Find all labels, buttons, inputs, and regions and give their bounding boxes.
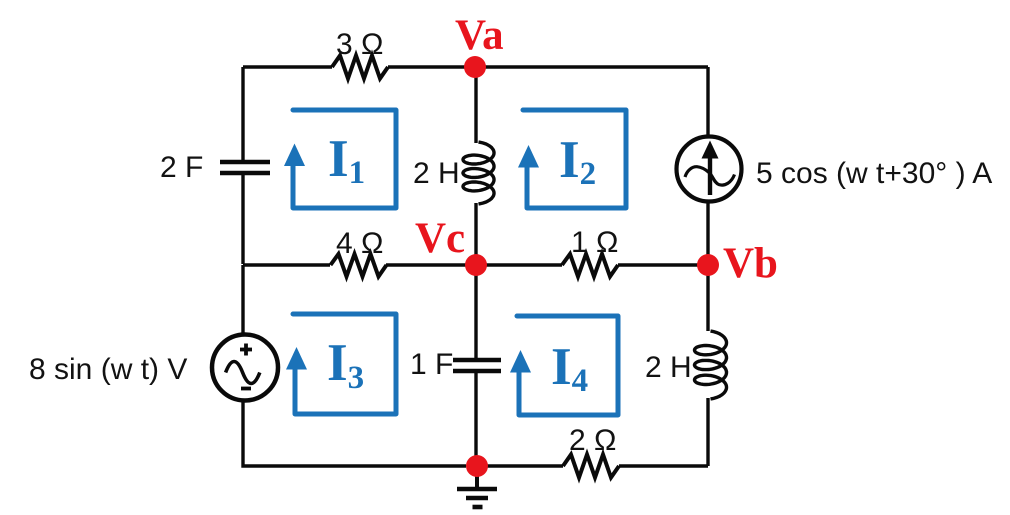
svg-text:2 H: 2 H bbox=[413, 157, 460, 190]
mesh current loop I4 bbox=[517, 316, 618, 415]
wire inductor to Vc bbox=[474, 203, 477, 265]
svg-text:I1: I1 bbox=[328, 130, 365, 191]
mesh loop I2 arrowhead bbox=[518, 145, 539, 168]
wire Vc to 1ohm bbox=[476, 263, 562, 266]
svg-text:1 F: 1 F bbox=[410, 348, 453, 381]
svg-text:I3: I3 bbox=[327, 334, 364, 396]
wire 2ohm to bottom-right corner bbox=[619, 464, 708, 467]
wire current source to Vb bbox=[706, 200, 709, 265]
mesh current loop I3 bbox=[293, 314, 396, 414]
resistor R 2ohm bbox=[563, 455, 619, 478]
mesh loop I1 arrowhead bbox=[284, 144, 305, 167]
svg-text:8 sin (w t) V: 8 sin (w t) V bbox=[29, 353, 187, 386]
middle wire left to 4ohm bbox=[243, 263, 330, 266]
ground bars bbox=[457, 489, 497, 507]
svg-text:Va: Va bbox=[455, 12, 504, 59]
capacitor C 2F plates bbox=[220, 162, 270, 173]
mesh loop I4 arrowhead bbox=[510, 350, 531, 373]
resistor R 4ohm bbox=[331, 254, 387, 277]
wire Va down to inductor bbox=[474, 67, 477, 143]
svg-text:2 F: 2 F bbox=[160, 151, 203, 184]
voltage source VS circle bbox=[212, 335, 278, 401]
wire top-left corner to 3ohm resistor bbox=[243, 65, 332, 68]
mesh current loop I1 bbox=[293, 110, 396, 208]
wire Vc down to 1F cap bbox=[474, 265, 477, 359]
wire top-right corner down to current source bbox=[706, 67, 709, 138]
capacitor C 2F left plates gap bbox=[241, 67, 244, 161]
svg-text:2 Ω: 2 Ω bbox=[569, 424, 616, 457]
current source arrow shaft bbox=[708, 156, 712, 195]
svg-text:Vc: Vc bbox=[415, 215, 465, 262]
inductor L 2H right bbox=[695, 331, 727, 399]
wire left middle down to voltage source bbox=[241, 265, 244, 335]
ground stem bbox=[475, 466, 479, 488]
ground node junction dot bbox=[466, 455, 488, 477]
node Vc junction dot bbox=[465, 254, 487, 276]
mesh current loop I2 bbox=[523, 110, 626, 208]
voltage source sine wave bbox=[226, 362, 260, 384]
node Va junction dot bbox=[464, 56, 486, 78]
inductor L 2H middle bbox=[463, 142, 494, 204]
svg-text:4 Ω: 4 Ω bbox=[336, 227, 383, 260]
voltage source plus sign bbox=[240, 344, 252, 356]
wire right inductor to bottom-right corner bbox=[706, 398, 709, 466]
wire Va to top-right corner bbox=[475, 65, 708, 68]
svg-text:3 Ω: 3 Ω bbox=[336, 28, 383, 61]
resistor R 3ohm bbox=[332, 56, 388, 79]
wire 1ohm to Vb bbox=[618, 263, 708, 266]
wire 1F to bottom node bbox=[474, 372, 477, 466]
current source arrowhead bbox=[702, 141, 719, 159]
node Vb junction dot bbox=[697, 254, 719, 276]
bottom wire node to 2ohm bbox=[476, 464, 563, 467]
svg-text:I4: I4 bbox=[551, 338, 588, 399]
current source sine squiggle bbox=[685, 167, 735, 185]
wire voltage source to bottom-left corner bbox=[243, 400, 466, 466]
wire resistor to Va bbox=[388, 65, 475, 68]
voltage source minus sign bbox=[241, 387, 251, 391]
resistor R 1ohm bbox=[562, 254, 618, 277]
capacitor C 1F plates bbox=[453, 360, 501, 371]
svg-text:I2: I2 bbox=[559, 131, 596, 192]
wire Vb down to right inductor bbox=[706, 265, 709, 331]
svg-text:Vb: Vb bbox=[723, 240, 778, 287]
current source CS1 circle bbox=[677, 137, 742, 202]
svg-text:5 cos (w t+30° ) A: 5 cos (w t+30° ) A bbox=[756, 157, 992, 190]
mesh loop I3 arrowhead bbox=[286, 347, 307, 370]
svg-text:1 Ω: 1 Ω bbox=[571, 226, 618, 259]
wire 4ohm to Vc bbox=[386, 263, 476, 266]
svg-text:2 H: 2 H bbox=[645, 351, 692, 384]
